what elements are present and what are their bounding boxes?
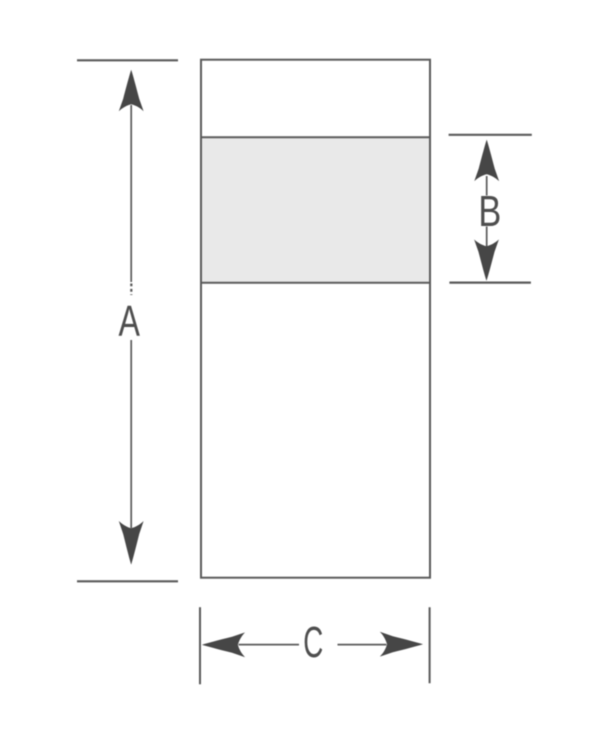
dimension C right extension tick — [429, 607, 431, 683]
dimension C line left segment — [239, 644, 299, 646]
dimension A up arrowhead — [119, 70, 144, 112]
label A — [118, 297, 140, 346]
shaded band fill — [202, 138, 429, 282]
label C — [303, 618, 323, 667]
dimension B up arrowhead — [474, 140, 499, 182]
band top line — [201, 136, 430, 138]
svg-text:C: C — [303, 618, 323, 667]
dimension C left extension tick — [199, 607, 201, 684]
dimension A down arrowhead — [119, 521, 144, 565]
dimension B bottom extension tick — [449, 282, 531, 284]
dimension B line lower segment — [486, 227, 488, 248]
dimension C left arrowhead — [202, 632, 245, 657]
dimension B line upper segment — [486, 176, 488, 196]
dimension A line upper segment — [130, 105, 132, 295]
svg-text:B: B — [478, 187, 501, 236]
dimension A top extension tick — [77, 59, 178, 61]
band bottom line — [201, 282, 430, 284]
dimension B down arrowhead — [474, 239, 499, 281]
body outline rectangle — [201, 60, 430, 578]
dimension A line lower segment — [130, 340, 132, 528]
svg-text:A: A — [118, 297, 140, 346]
dimension A bottom extension tick — [77, 580, 178, 582]
dimension C right arrowhead — [380, 632, 423, 657]
dimension C line right segment — [338, 644, 387, 646]
label B — [478, 187, 501, 236]
dimension B top extension tick — [449, 134, 532, 136]
